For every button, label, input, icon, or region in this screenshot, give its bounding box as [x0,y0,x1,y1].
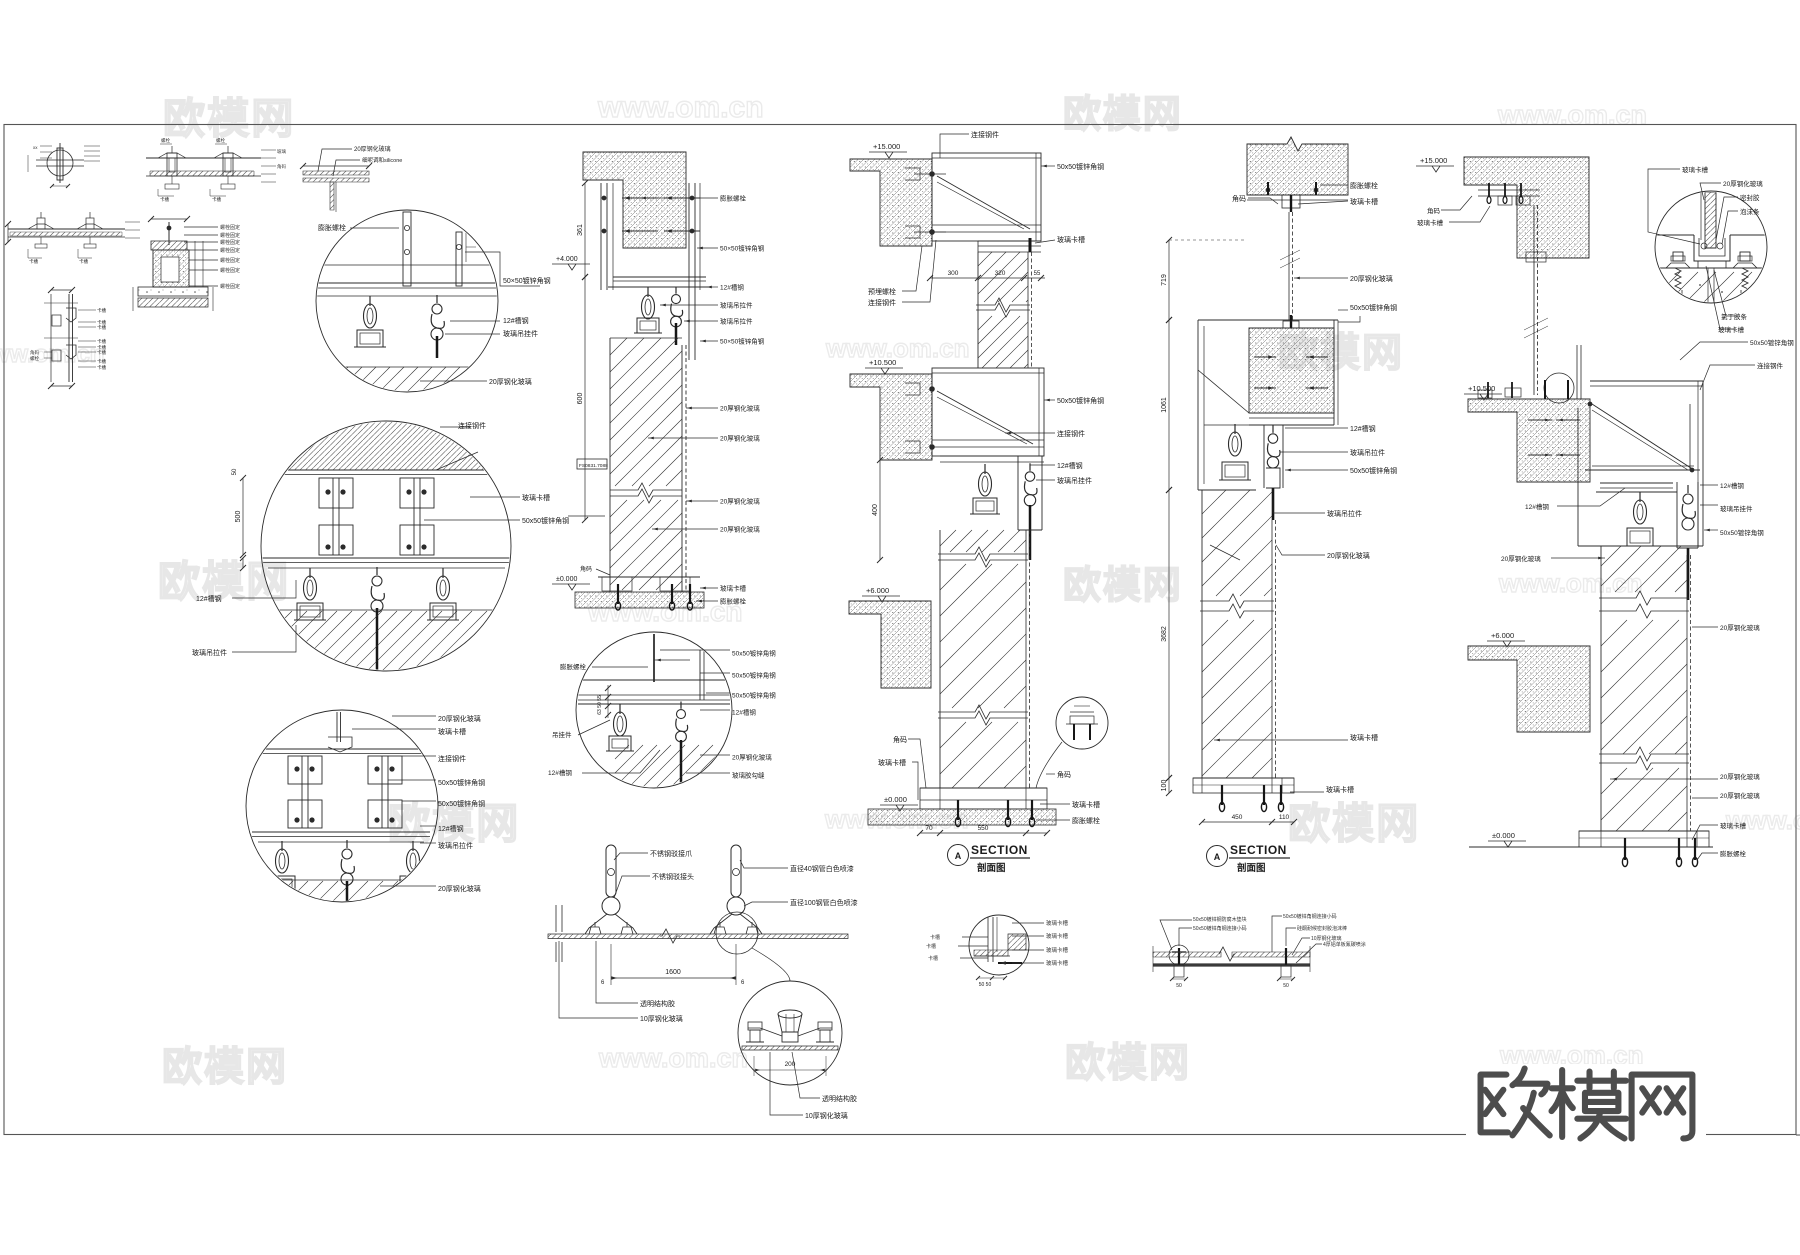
detail D5: concrete pedestal section [168,222,170,245]
svg-text:50x50镀锌角钢: 50x50镀锌角钢 [732,649,776,658]
svg-text:+15.000: +15.000 [873,142,900,151]
svg-text:卡槽: 卡槽 [97,364,106,371]
svg-text:www.om.cn: www.om.cn [1498,568,1643,598]
svg-text:20厚钢化玻璃: 20厚钢化玻璃 [1720,623,1760,632]
svg-text:550: 550 [978,825,989,832]
svg-text:12#槽钢: 12#槽钢 [503,316,529,325]
svg-text:透明结构胶: 透明结构胶 [822,1094,857,1103]
logo glyph MO (模) [1558,1070,1566,1137]
svg-text:泡沫条: 泡沫条 [1740,207,1760,216]
SC steel frame with brace [1590,380,1703,382]
svg-text:50x50镀锌角钢: 50x50镀锌角钢 [732,691,776,700]
C2 bolted angle assemblies [319,478,353,508]
svg-text:20厚钢化玻璃: 20厚钢化玻璃 [354,145,391,153]
svg-text:螺栓: 螺栓 [161,137,170,144]
svg-text:50x50镀锌角钢: 50x50镀锌角钢 [522,516,569,525]
svg-text:玻璃卡槽: 玻璃卡槽 [1046,959,1069,967]
svg-text:角码: 角码 [580,565,592,573]
svg-text:55: 55 [1034,271,1041,277]
svg-text:110: 110 [1279,814,1290,821]
svg-text:12#槽钢: 12#槽钢 [1720,481,1744,490]
section SB top concrete [1247,137,1348,195]
svg-text:螺栓: 螺栓 [30,355,39,362]
svg-text:卡槽: 卡槽 [97,358,106,365]
S1 bottom shoe + ground [598,576,700,578]
svg-text:玻璃卡槽: 玻璃卡槽 [1046,919,1069,927]
svg-text:玻璃卡槽: 玻璃卡槽 [438,727,466,736]
svg-text:欧模网: 欧模网 [162,1045,288,1089]
svg-text:50x50镀锌角钢连接小码: 50x50镀锌角钢连接小码 [1283,913,1337,920]
svg-text:50x50镀锌角钢: 50x50镀锌角钢 [1057,396,1104,405]
svg-text:12#槽钢: 12#槽钢 [1525,502,1549,511]
svg-text:螺栓固定: 螺栓固定 [220,247,240,254]
circle detail C5: bolt fixing enlarged [738,981,842,1085]
C4 dims + labels [605,685,611,691]
svg-text:螺栓固定: 螺栓固定 [220,232,240,239]
svg-text:玻璃卡槽: 玻璃卡槽 [1682,165,1709,174]
svg-text:20厚钢化玻璃: 20厚钢化玻璃 [720,404,760,413]
C6 glass edge w/ sealant [1705,192,1716,248]
svg-text:1600: 1600 [665,969,681,976]
svg-text:500: 500 [235,511,242,523]
svg-text:www.om.cn: www.om.cn [1497,100,1647,130]
svg-text:螺栓: 螺栓 [216,137,225,144]
svg-text:10厚钢化玻璃: 10厚钢化玻璃 [805,1111,848,1120]
SA top concrete + steel bracket [850,159,932,246]
svg-text:20厚钢化玻璃: 20厚钢化玻璃 [720,497,760,506]
svg-text:卡槽: 卡槽 [212,196,221,203]
SC top concrete [1464,157,1589,258]
svg-text:不锈钢驳接爪: 不锈钢驳接爪 [650,849,692,858]
svg-text:50x50镀锌角钢连接小码: 50x50镀锌角钢连接小码 [1193,925,1247,932]
svg-text:卡槽: 卡槽 [29,258,38,265]
svg-text:欧模网: 欧模网 [1063,565,1183,607]
svg-text:玻璃卡槽: 玻璃卡槽 [1350,733,1378,742]
svg-text:玻璃吊拉件: 玻璃吊拉件 [438,841,473,850]
svg-text:www.om.cn: www.om.cn [598,1043,748,1073]
SC labels bottom right [1610,778,1718,780]
svg-text:12#槽钢: 12#槽钢 [1350,424,1376,433]
svg-text:450: 450 [1232,814,1243,821]
C2 glass panel [262,609,510,611]
svg-text:600: 600 [577,393,584,405]
svg-text:20厚钢化玻璃: 20厚钢化玻璃 [1350,274,1393,283]
SA mid channel + hangers [940,455,1044,457]
svg-text:玻璃卡槽: 玻璃卡槽 [1417,218,1444,227]
S1 hangers [647,287,649,297]
SA small circle callout [1056,697,1108,749]
svg-text:50x50镀锌角钢: 50x50镀锌角钢 [438,799,485,808]
SA glass column lower [939,530,941,788]
SB base shoe [1193,777,1294,779]
svg-text:50x50镀锌钢防腐木垫块: 50x50镀锌钢防腐木垫块 [1193,916,1247,923]
svg-text:12#槽钢: 12#槽钢 [1057,461,1083,470]
svg-text:50x50镀锌角钢: 50x50镀锌角钢 [732,671,776,680]
svg-text:20厚钢化玻璃: 20厚钢化玻璃 [720,525,760,534]
svg-text:+10.500: +10.500 [1468,384,1495,393]
bottom-right watermark logo [1466,1064,1706,1148]
SC glass column [1600,546,1602,831]
svg-text:膨胀螺栓: 膨胀螺栓 [1072,816,1100,825]
svg-text:A: A [955,851,962,861]
logo glyph OU (欧) [1481,1075,1508,1133]
SC circle detail C6 [1655,191,1767,303]
svg-text:20厚钢化玻璃: 20厚钢化玻璃 [1501,554,1541,563]
svg-text:角码: 角码 [277,163,286,170]
circle detail C2: mid connection w/ slab [261,421,511,671]
svg-text:4厚铝单板氟碳喷涂: 4厚铝单板氟碳喷涂 [1323,941,1366,948]
svg-text:卡槽: 卡槽 [930,934,940,941]
svg-text:50×50镀锌角钢: 50×50镀锌角钢 [503,276,551,285]
svg-text:角码: 角码 [1232,194,1246,203]
svg-text:A: A [1214,852,1221,862]
detail S2: point-fixed glass plan [555,905,557,932]
svg-text:硅酮耐候密封胶泡沫棒: 硅酮耐候密封胶泡沫棒 [1297,925,1347,932]
C3 labels right [392,715,436,717]
svg-text:角码: 角码 [893,735,907,744]
SC mid top fittings [1544,373,1574,403]
C4 glass bottom [615,745,725,787]
SB section mark [1207,846,1228,867]
svg-text:玻璃吊挂件: 玻璃吊挂件 [1720,504,1753,513]
logo glyph WANG (网) [1632,1075,1693,1139]
svg-text:剖面图: 剖面图 [1237,862,1266,874]
SA bottom dim [920,832,1047,834]
svg-text:螺栓固定: 螺栓固定 [220,239,240,246]
svg-text:20厚钢化玻璃: 20厚钢化玻璃 [732,753,772,762]
S1 mullion plates [600,183,602,290]
C6 concrete below [1650,272,1680,302]
svg-text:螺栓固定: 螺栓固定 [220,283,240,290]
svg-text:361: 361 [577,224,584,236]
SB glass column [1201,490,1203,778]
svg-text:膨胀螺栓: 膨胀螺栓 [560,662,587,671]
circle detail C3: lower connection [246,710,438,902]
svg-text:玻璃吊挂件: 玻璃吊挂件 [1057,476,1092,485]
C1 hanger chain [369,296,371,306]
svg-text:www.om.cn: www.om.cn [825,333,970,363]
svg-text:50x50镀锌角钢: 50x50镀锌角钢 [1720,528,1764,537]
circle detail C4: base fixing detail [576,632,732,788]
svg-text:12#槽钢: 12#槽钢 [196,594,222,603]
svg-text:玻璃卡槽: 玻璃卡槽 [1720,821,1747,830]
BD2 fittings [1178,948,1180,965]
SA labels bottom right [1046,773,1055,775]
svg-text:玻璃吊挂件: 玻璃吊挂件 [503,329,538,338]
svg-text:50×50镀锌角钢: 50×50镀锌角钢 [720,244,765,253]
svg-text:玻璃卡槽: 玻璃卡槽 [522,493,550,502]
svg-text:±0.000: ±0.000 [1492,831,1515,840]
SC top clamp assembly [1478,189,1540,191]
SC bolts in concrete [1528,419,1552,421]
svg-text:12#槽钢: 12#槽钢 [720,283,744,292]
detail D4: glass band with fittings (left) [8,228,125,230]
svg-text:连接钢件: 连接钢件 [1057,429,1085,438]
S1 labels right [640,197,718,199]
S2 callout circle on right fitting [716,912,758,954]
svg-text:细呢调和silicone: 细呢调和silicone [362,156,402,164]
svg-text:20厚钢化玻璃: 20厚钢化玻璃 [1327,551,1370,560]
svg-text:玻璃卡槽: 玻璃卡槽 [1350,197,1378,206]
svg-text:膨胀螺栓: 膨胀螺栓 [1720,849,1747,858]
SA glass column upper [977,252,979,368]
SB diagonal + hangers [1198,370,1249,413]
svg-text:50: 50 [1176,983,1182,989]
svg-text:卡槽: 卡槽 [928,955,938,962]
svg-text:70: 70 [925,825,933,832]
svg-text:20厚钢化玻璃: 20厚钢化玻璃 [438,714,481,723]
svg-text:12#槽钢: 12#槽钢 [548,768,572,777]
svg-text:卡槽: 卡槽 [97,338,106,345]
S1 glass panel column [610,337,682,339]
svg-text:玻璃吊拉件: 玻璃吊拉件 [1350,448,1385,457]
svg-text:SECTION: SECTION [971,843,1028,857]
svg-text:1061: 1061 [1161,397,1168,413]
svg-text:100: 100 [1161,780,1168,792]
svg-text:连接钢件: 连接钢件 [971,130,999,139]
C2 hangers [309,568,311,578]
SB dims left [1168,240,1170,320]
svg-text:50: 50 [232,468,238,475]
SC base + ground [1579,830,1709,832]
svg-text:玻璃卡槽: 玻璃卡槽 [878,758,906,767]
SA section mark [948,845,969,866]
detail D1: mullion joint mini section [36,159,84,161]
svg-text:www.om.cn: www.om.cn [597,91,764,124]
C3 glass panel [248,879,436,881]
svg-text:卡槽: 卡槽 [97,324,106,331]
svg-text:20厚钢化玻璃: 20厚钢化玻璃 [489,377,532,386]
svg-text:直径40钢管白色喷漆: 直径40钢管白色喷漆 [790,864,854,873]
C6 anchor bolts [1673,252,1683,261]
svg-text:+6.000: +6.000 [866,586,889,595]
svg-text:直径100钢管白色喷漆: 直径100钢管白色喷漆 [790,898,858,907]
svg-text:玻璃卡槽: 玻璃卡槽 [1057,235,1085,244]
svg-text:膨胀螺栓: 膨胀螺栓 [720,194,747,203]
detail BD1: corner joint circle [969,915,1029,975]
svg-text:+4.000: +4.000 [556,256,578,263]
svg-text:不锈钢驳接头: 不锈钢驳接头 [652,872,694,881]
svg-text:50x50镀锌角钢: 50x50镀锌角钢 [438,778,485,787]
svg-text:玻璃卡槽: 玻璃卡槽 [1718,325,1745,334]
svg-text:玻璃吊拉件: 玻璃吊拉件 [720,301,753,310]
svg-text:玻璃卡槽: 玻璃卡槽 [1046,932,1069,940]
svg-text:连接钢件: 连接钢件 [868,298,896,307]
svg-text:SECTION: SECTION [1230,843,1287,857]
svg-text:20厚钢化玻璃: 20厚钢化玻璃 [1720,791,1760,800]
svg-text:螺栓固定: 螺栓固定 [220,267,240,274]
C1 hanger hook [436,295,438,303]
svg-text:3682: 3682 [1161,626,1168,642]
svg-text:卡槽: 卡槽 [97,349,106,356]
svg-text:300: 300 [948,270,959,277]
S1 12# channel [613,276,706,278]
svg-text:50×50镀锌角钢: 50×50镀锌角钢 [720,337,765,346]
section S1: concrete beam [583,152,686,248]
svg-text:+15.000: +15.000 [1420,156,1447,165]
svg-text:连接钢件: 连接钢件 [438,754,466,763]
svg-text:10厚钢化玻璃: 10厚钢化玻璃 [1311,935,1342,942]
svg-text:欧模网: 欧模网 [1065,1041,1191,1085]
svg-text:±0.000: ±0.000 [556,576,577,583]
detail D2: horizontal glass band with two patch fittings [146,157,261,159]
svg-text:50: 50 [1283,983,1289,989]
S2 dims [610,944,612,985]
svg-text:xx: xx [33,145,38,150]
svg-text:20厚钢化玻璃: 20厚钢化玻璃 [1720,772,1760,781]
svg-text:20厚钢化玻璃: 20厚钢化玻璃 [438,884,481,893]
svg-text:剖面图: 剖面图 [977,862,1006,874]
S2 posts [606,845,616,897]
BD2 leaders [1179,928,1192,946]
svg-text:吊挂件: 吊挂件 [552,730,572,739]
svg-text:膨胀螺栓: 膨胀螺栓 [1350,181,1378,190]
S2 glass line [548,934,848,939]
svg-text:+10.500: +10.500 [869,358,896,367]
svg-text:20厚钢化玻璃: 20厚钢化玻璃 [1723,179,1763,188]
svg-text:角码: 角码 [30,349,39,356]
SB hanging glass line [1288,212,1290,320]
svg-text:欧模网: 欧模网 [1288,800,1420,847]
svg-text:400: 400 [872,504,879,516]
svg-text:密封胶: 密封胶 [1740,193,1760,202]
svg-text:玻璃吊拉件: 玻璃吊拉件 [720,317,753,326]
svg-text:透明结构胶: 透明结构胶 [640,999,675,1008]
svg-text:预埋螺栓: 预埋螺栓 [868,287,896,296]
svg-text:12#槽钢: 12#槽钢 [732,708,756,717]
svg-text:欧模网: 欧模网 [163,95,295,142]
svg-text:玻璃卡槽: 玻璃卡槽 [720,584,747,593]
C3 hangers [281,841,283,851]
svg-text:卡槽: 卡槽 [97,307,106,314]
C2 dims/labels [242,478,244,555]
SB bottom dim [1202,821,1294,823]
svg-text:膨胀螺栓: 膨胀螺栓 [720,597,747,606]
svg-text:20厚钢化玻璃: 20厚钢化玻璃 [720,434,760,443]
svg-text:10厚钢化玻璃: 10厚钢化玻璃 [640,1014,683,1023]
svg-text:FS0831.7088: FS0831.7088 [579,463,608,469]
svg-text:12#槽钢: 12#槽钢 [438,824,464,833]
svg-text:卡槽: 卡槽 [926,943,936,950]
SB mid concrete block + frame [1198,319,1338,321]
SA dim 300/320/55 [930,277,1045,279]
SA labels mid right [1044,399,1055,401]
svg-text:卡槽: 卡槽 [79,258,88,265]
svg-text:50 50: 50 50 [979,982,992,988]
svg-text:膨胀螺栓: 膨胀螺栓 [318,223,346,232]
svg-text:玻璃胶勾缝: 玻璃胶勾缝 [732,771,765,780]
svg-text:卡槽: 卡槽 [160,196,169,203]
svg-text:角码: 角码 [1057,770,1071,779]
svg-text:玻璃: 玻璃 [277,148,286,155]
svg-text:63 50 55: 63 50 55 [597,695,603,715]
svg-text:玻璃卡槽: 玻璃卡槽 [1046,946,1069,954]
svg-text:50x50镀锌角钢: 50x50镀锌角钢 [1750,338,1794,347]
C4 hangers [619,704,621,714]
svg-text:±0.000: ±0.000 [884,795,907,804]
svg-text:320: 320 [995,270,1006,277]
SA glass clamp top [978,240,1041,242]
svg-text:连接钢件: 连接钢件 [458,421,486,430]
svg-text:螺栓固定: 螺栓固定 [220,257,240,264]
detail D3: glass T-joint plan [303,171,369,175]
svg-text:719: 719 [1161,274,1168,286]
svg-text:玻璃吊拉件: 玻璃吊拉件 [1327,509,1362,518]
detail D6: vertical glass joint section [50,294,52,382]
C1 glass panel (hatched) [320,366,494,368]
SA labels top right [1041,165,1055,167]
svg-text:50x50镀锌角钢: 50x50镀锌角钢 [1350,466,1397,475]
svg-text:50x50镀锌角钢: 50x50镀锌角钢 [1350,303,1397,312]
svg-text:50x50镀锌角钢: 50x50镀锌角钢 [1057,162,1104,171]
svg-text:玻璃吊拉件: 玻璃吊拉件 [192,648,227,657]
svg-text:螺栓固定: 螺栓固定 [220,224,240,231]
detail BD2: horizontal stick glazing section [1153,952,1221,957]
svg-text:+6.000: +6.000 [1491,631,1514,640]
SC channel + hangers [1600,482,1673,484]
svg-text:玻璃卡槽: 玻璃卡槽 [1072,800,1100,809]
circle detail C1: top hanging connection [316,210,498,392]
svg-text:www.om.cn: www.om.cn [1725,805,1800,835]
SB labels right lower [1214,739,1348,741]
svg-text:欧模网: 欧模网 [1063,94,1183,136]
C3 bolted angle assemblies [288,756,322,784]
svg-text:角码: 角码 [1427,206,1441,215]
svg-text:连接钢件: 连接钢件 [1757,361,1784,370]
C6 glass channel [1694,235,1730,261]
SC hanging mullion from top block [1533,205,1535,395]
C5 glass [742,1046,838,1050]
svg-text:玻璃卡槽: 玻璃卡槽 [1326,785,1354,794]
